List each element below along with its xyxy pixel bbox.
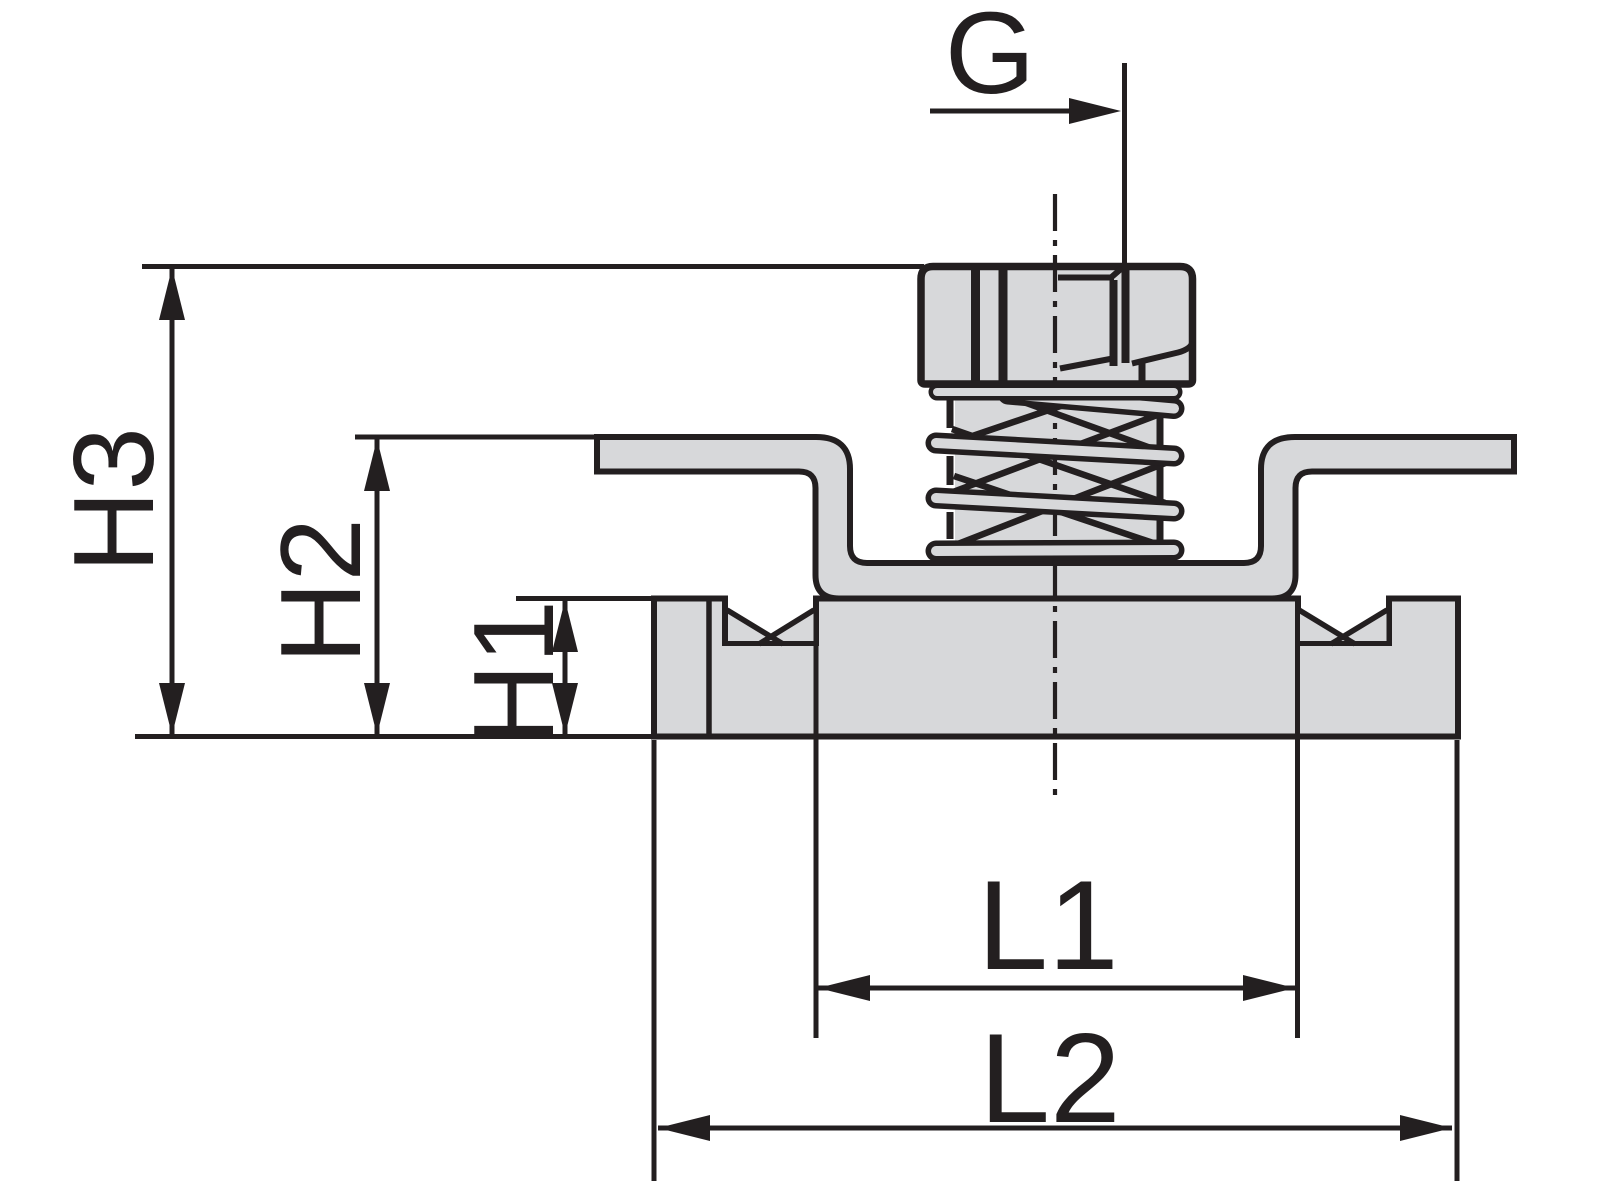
svg-text:H3: H3	[51, 427, 178, 573]
svg-text:L1: L1	[977, 854, 1118, 996]
svg-text:G: G	[945, 0, 1035, 118]
svg-text:H2: H2	[258, 518, 385, 664]
svg-text:H1: H1	[451, 600, 578, 746]
svg-text:L2: L2	[979, 1007, 1120, 1149]
